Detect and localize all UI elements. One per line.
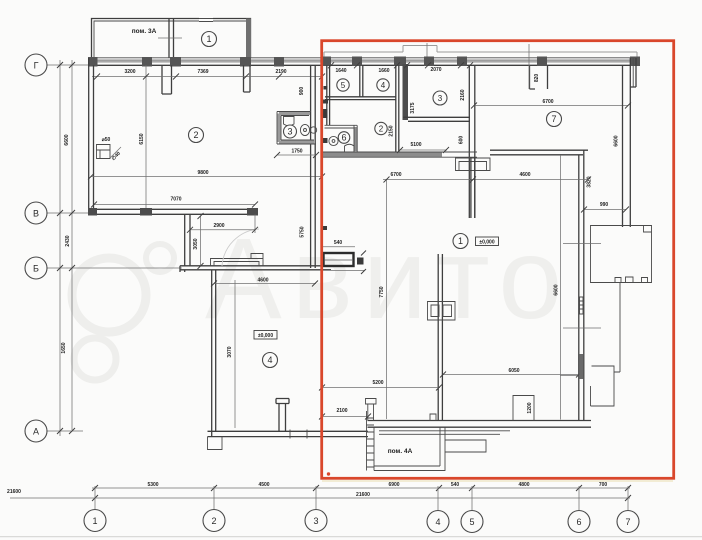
room circle 4 [263, 353, 278, 368]
lower step shape right of pom4a [445, 440, 486, 452]
room4 foot [208, 437, 223, 450]
room6 top wall [325, 125, 358, 128]
room3 big bottom wall [403, 117, 470, 121]
svg-text:1750: 1750 [291, 149, 302, 155]
svg-text:3070: 3070 [227, 346, 233, 357]
svg-text:2: 2 [211, 516, 216, 526]
svg-text:2: 2 [379, 124, 384, 133]
room circle 4b [377, 79, 389, 91]
centerline x427 [426, 43, 428, 66]
dim 2100 [322, 416, 368, 418]
photo bottom edge line [0, 536, 702, 538]
svg-text:1: 1 [206, 34, 211, 44]
dim 6700 room7 [474, 105, 628, 107]
axis circle 3 [305, 510, 327, 532]
dim slashes row y76 [94, 74, 325, 80]
room4 bottom wall [208, 431, 369, 436]
svg-text:1: 1 [92, 516, 97, 526]
svg-text:6700: 6700 [542, 99, 553, 105]
left vertical dim line x72 [71, 60, 73, 430]
axis circle 5 [461, 511, 483, 533]
room circle 1 top [202, 32, 217, 47]
room6 right wall [354, 127, 357, 152]
svg-text:990: 990 [600, 202, 609, 208]
bathroom3 wall edges [277, 112, 316, 145]
dim slashes 6700 room7 [471, 103, 631, 109]
top room window lines [199, 19, 213, 22]
svg-text:540: 540 [334, 240, 343, 246]
svg-text:4: 4 [435, 517, 440, 527]
svg-text:6700: 6700 [390, 172, 401, 178]
svg-text:5: 5 [469, 517, 474, 527]
outer face line above band [324, 46, 637, 59]
dim 6050 [443, 374, 579, 376]
top room divider wall [169, 19, 174, 59]
dim 4600 room4 [214, 283, 316, 285]
bottom dim line row1 [92, 487, 630, 489]
axis circle 4 [427, 511, 449, 533]
dim arrow right [560, 375, 582, 377]
svg-text:2160: 2160 [460, 89, 466, 100]
room4 left wall [212, 270, 216, 437]
axis line Г horizontal [47, 64, 92, 66]
svg-text:7369: 7369 [197, 69, 208, 75]
room4 door marks [290, 430, 307, 439]
main top wall band bottom line [88, 64, 640, 66]
kitchen fixture [456, 158, 491, 171]
svg-text:3: 3 [287, 127, 292, 137]
svg-text:пом. 3А: пом. 3А [132, 28, 157, 35]
right wall inner line [632, 58, 634, 87]
svg-text:∅40: ∅40 [111, 151, 122, 162]
notch 1200 [513, 396, 534, 421]
vertical line x620 below balcony [614, 283, 620, 373]
axis circle 6 [568, 511, 590, 533]
svg-text:700: 700 [599, 482, 608, 488]
room4 level box [254, 331, 277, 340]
svg-text:5750: 5750 [300, 226, 306, 237]
top room 3A inner line [94, 21, 248, 58]
svg-text:4500: 4500 [258, 482, 269, 488]
top room right wall fill [246, 19, 251, 59]
svg-text:6600: 6600 [554, 284, 560, 295]
axis circle А [25, 420, 47, 442]
right wall solid segment [579, 354, 583, 379]
svg-text:21600: 21600 [356, 492, 370, 498]
svg-text:4800: 4800 [518, 482, 529, 488]
svg-text:±0,000: ±0,000 [258, 333, 273, 339]
room circle 2b [375, 122, 387, 134]
axis line В horizontal [47, 212, 90, 214]
axis circle В [25, 202, 47, 224]
stub below band A [162, 65, 172, 94]
svg-text:820: 820 [534, 74, 540, 83]
svg-text:600: 600 [459, 136, 465, 145]
vent box 540 [324, 253, 354, 266]
svg-text:900: 900 [299, 87, 305, 96]
svg-text:6600: 6600 [64, 134, 70, 145]
svg-text:5100: 5100 [410, 142, 421, 148]
window sill shape [211, 254, 264, 266]
room circle 2 [189, 128, 204, 143]
balcony bottom notches [615, 277, 648, 283]
balcony corner notch [644, 226, 652, 233]
room4 dim vertical [234, 280, 236, 428]
wall B row (y207-213) [89, 209, 258, 214]
wall x437-442 bottom junction [430, 414, 436, 421]
svg-text:±0,000: ±0,000 [479, 240, 494, 246]
svg-text:4600: 4600 [519, 172, 530, 178]
axis line А horizontal [47, 430, 83, 432]
dim 6700-4600 row [383, 179, 588, 181]
room circle 3 big [433, 91, 447, 105]
dim slashes 9800 [88, 174, 325, 180]
svg-text:3: 3 [313, 516, 318, 526]
svg-text:4600: 4600 [257, 278, 268, 284]
dim 2900 [190, 215, 255, 234]
svg-text:6150: 6150 [139, 133, 145, 144]
right step shape [592, 366, 615, 406]
vent blob [357, 258, 364, 265]
red dot [327, 472, 330, 475]
level box room1 [476, 237, 499, 246]
svg-text:9800: 9800 [197, 170, 208, 176]
wall F horizontal [180, 266, 331, 272]
svg-text:пом. 4А: пом. 4А [388, 448, 413, 455]
svg-text:7: 7 [551, 114, 556, 124]
red halo bottom [322, 480, 673, 482]
svg-text:6900: 6900 [388, 482, 399, 488]
balcony side ticks [563, 244, 601, 329]
right wall window hatch [580, 297, 584, 314]
svg-text:5: 5 [341, 81, 346, 90]
centerline above wall x529 [528, 44, 530, 89]
door swing arc [222, 229, 259, 266]
bottom axis stems [95, 486, 628, 511]
main top wall band mid line [97, 60, 631, 62]
svg-text:2100: 2100 [336, 408, 347, 414]
axis line Б horizontal [47, 267, 182, 269]
room6 circle 6 [338, 132, 350, 144]
room circle 1 big [453, 234, 468, 249]
right lower walls [591, 386, 592, 406]
long dim vertical x560 [560, 155, 562, 420]
svg-text:3175: 3175 [410, 102, 416, 113]
bottom wall step lines [379, 431, 510, 435]
wall piers on top band [88, 57, 640, 67]
axis circle Г [25, 54, 47, 76]
pom4a box [374, 427, 445, 470]
svg-text:5300: 5300 [147, 482, 158, 488]
watermark avito logo dots [72, 244, 174, 380]
axis circle 2 [203, 510, 225, 532]
svg-text:6: 6 [341, 133, 346, 143]
bathroom3 toilet [284, 117, 295, 126]
ladder hatch pom4a [367, 411, 375, 471]
dim 9800 [91, 176, 322, 178]
svg-text:2430: 2430 [65, 235, 71, 246]
axis circle 7 [617, 511, 639, 533]
balcony rect [591, 226, 652, 283]
dim slashes misc [91, 147, 629, 420]
bathroom3 dim [277, 154, 316, 156]
left dim ticks [57, 62, 75, 434]
room circle 5 [337, 79, 349, 91]
svg-text:В: В [33, 209, 39, 219]
thick wall x403 [403, 64, 409, 120]
svg-text:2150: 2150 [389, 125, 395, 136]
svg-text:2900: 2900 [213, 223, 224, 229]
dim 990 [584, 209, 626, 211]
room7 bottom wall [490, 150, 588, 155]
wall B pier [140, 208, 152, 216]
room6 right wall edges [354, 125, 357, 152]
svg-text:1660: 1660 [378, 68, 389, 74]
building bottom wall [368, 421, 592, 428]
wall x438 vertical lower [438, 254, 442, 421]
wall band y153 edges [322, 152, 477, 157]
svg-text:3050: 3050 [193, 238, 199, 249]
svg-text:1200: 1200 [527, 402, 533, 413]
dim 540 line [322, 247, 364, 271]
room6 sink [329, 136, 338, 145]
bottom dim ticks row1 [92, 485, 631, 501]
left vertical dim line x60 [59, 60, 61, 436]
wall E vertical [185, 214, 190, 266]
svg-text:4: 4 [267, 355, 272, 365]
svg-text:А: А [33, 427, 39, 437]
stub below band B [244, 65, 251, 92]
room7 protrusion [530, 65, 548, 89]
wall right of red line [327, 65, 330, 125]
room7 right lower wall [579, 150, 584, 420]
axis circle 1 [84, 510, 106, 532]
top room window gap [199, 17, 213, 23]
wall under rooms 5 4 [325, 97, 396, 100]
room4 stub [276, 399, 289, 432]
band second line [97, 59, 630, 61]
room6 toilet [345, 144, 355, 151]
svg-text:1640: 1640 [335, 68, 346, 74]
fixture blocks on wall x438 [428, 302, 456, 321]
red highlight rectangle [322, 41, 674, 479]
wall x469 vertical [469, 65, 475, 218]
left outer wall [89, 58, 94, 214]
room 3A leader line [158, 37, 182, 39]
wall right of room 4b [396, 65, 399, 151]
svg-text:540: 540 [451, 482, 460, 488]
svg-text:21600: 21600 [7, 489, 21, 495]
wall between rooms 5 and 4 [360, 65, 363, 97]
wall band y153 fill [322, 152, 442, 157]
small box on left wall [97, 145, 111, 159]
shaft wall pair x310 [311, 65, 316, 268]
axis circle Б [25, 257, 47, 279]
svg-text:3200: 3200 [124, 69, 135, 75]
dim line under band left [92, 76, 322, 78]
bathroom3 sink [300, 124, 309, 135]
svg-text:5200: 5200 [372, 380, 383, 386]
svg-text:1: 1 [458, 236, 463, 246]
stub nish [366, 399, 377, 421]
svg-text:2: 2 [193, 130, 198, 140]
svg-text:4: 4 [381, 81, 386, 90]
svg-text:⌀50: ⌀50 [102, 137, 111, 143]
diag leader [110, 147, 121, 158]
dim 7070 [94, 204, 255, 206]
svg-text:7: 7 [625, 517, 630, 527]
dim 5100 [400, 149, 447, 151]
room circle 7 [547, 112, 562, 127]
svg-text:1650: 1650 [61, 342, 67, 353]
tiny marks on red line [323, 86, 328, 230]
dim slashes band right [328, 62, 473, 68]
svg-text:Б: Б [33, 264, 39, 274]
bottom dim line row2 total [10, 497, 630, 499]
vent arrows [361, 251, 366, 275]
svg-text:7070: 7070 [170, 197, 181, 203]
svg-text:2070: 2070 [430, 67, 441, 73]
svg-text:Г: Г [34, 61, 39, 71]
svg-text:6050: 6050 [508, 368, 519, 374]
svg-text:3: 3 [438, 94, 443, 103]
wall B end block [247, 208, 258, 216]
dim slashes 6700-4600 [384, 177, 592, 183]
main top wall band top line [88, 57, 640, 59]
wall stub x473 down [471, 157, 475, 218]
bathroom3 walls [279, 114, 314, 143]
svg-text:7750: 7750 [379, 286, 385, 297]
bathroom3 door circle [310, 127, 316, 133]
right outer wall [623, 58, 637, 227]
dim 5200 [322, 387, 440, 389]
dim vertical 6150 line [145, 65, 147, 208]
top room 3A outline [92, 19, 251, 59]
long thin vertical x386 [386, 180, 388, 420]
svg-text:6: 6 [576, 517, 581, 527]
svg-text:6600: 6600 [614, 135, 620, 146]
bathroom3 circle 3 [284, 125, 297, 138]
